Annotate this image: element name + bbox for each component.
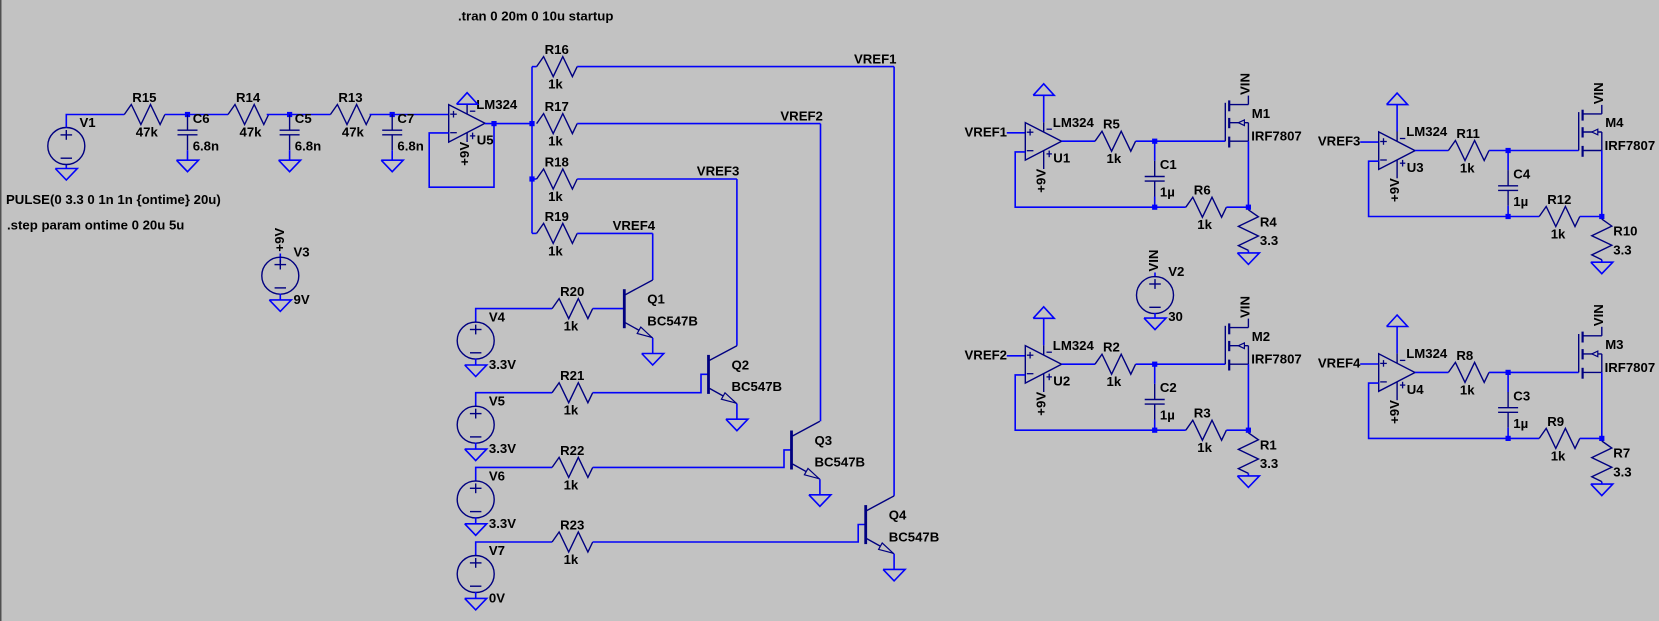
wire R11 to M4 gate (1489, 150, 1579, 152)
wire VREF2 vertical to Q3 (820, 124, 822, 422)
wire U3 V- to flag (1396, 105, 1398, 132)
svg-text:1k: 1k (1460, 382, 1475, 397)
svg-text:LM324: LM324 (1406, 124, 1448, 139)
wire M3 source down (1601, 372, 1603, 438)
svg-text:1k: 1k (1551, 227, 1566, 242)
svg-text:3.3V: 3.3V (489, 357, 516, 372)
svg-text:LM324: LM324 (476, 97, 518, 112)
resistor R7 (1592, 441, 1612, 482)
svg-text:R14: R14 (236, 90, 261, 105)
svg-text:M3: M3 (1605, 337, 1623, 352)
svg-text:1k: 1k (548, 243, 563, 258)
resistor R4 (1238, 210, 1258, 251)
svg-text:1k: 1k (1551, 448, 1566, 463)
wire R18 to VREF3 (577, 178, 737, 180)
svg-text:1k: 1k (564, 403, 579, 418)
svg-text:1k: 1k (1107, 374, 1122, 389)
wire R6 to R4 (1226, 206, 1248, 208)
wire V4 to ground (475, 358, 477, 365)
wire U1 feedback to bottom node (1015, 152, 1186, 207)
capacitor C3 (1498, 392, 1518, 428)
ground under R4 (1237, 253, 1259, 265)
svg-text:47k: 47k (342, 125, 365, 140)
svg-text:3.3: 3.3 (1260, 456, 1278, 471)
wire VREF3 vertical to Q2 (736, 179, 738, 346)
svg-text:VREF2: VREF2 (965, 347, 1008, 362)
transistor Q2 (BC547B) (709, 346, 737, 404)
svg-text:1k: 1k (548, 77, 563, 92)
svg-text:LM324: LM324 (1406, 346, 1448, 361)
wire Q3 emitter to ground (819, 479, 821, 495)
svg-text:VREF2: VREF2 (780, 108, 823, 123)
ground under R1 (1237, 476, 1259, 488)
voltage source V3 (262, 257, 299, 294)
svg-text:1k: 1k (548, 189, 563, 204)
svg-text:V6: V6 (489, 468, 505, 483)
wire C2 to bottom node (1154, 420, 1156, 431)
node N003 junction (390, 112, 395, 117)
wire VREF4 to U4 +in (1360, 363, 1379, 365)
svg-text:47k: 47k (136, 125, 159, 140)
node junction at C4 top (1506, 148, 1511, 153)
capacitor C7 (382, 115, 402, 151)
wire U4 out to R8 (1415, 371, 1448, 373)
svg-text:+9V: +9V (457, 142, 472, 166)
wire M2 source down (1247, 364, 1249, 430)
svg-text:R5: R5 (1103, 117, 1120, 132)
voltage source V4 (457, 322, 494, 359)
wire R12 to R10 (1580, 216, 1602, 218)
svg-text:1k: 1k (564, 319, 579, 334)
svg-text:Q1: Q1 (647, 292, 665, 307)
svg-text:3.3: 3.3 (1613, 242, 1631, 257)
wire Q2 emitter to ground (736, 404, 738, 420)
svg-text:3.3: 3.3 (1260, 233, 1278, 248)
wire VREF4 vertical to Q1 (652, 233, 654, 280)
svg-text:R8: R8 (1456, 348, 1473, 363)
capacitor C5 (280, 115, 300, 151)
wire bus to R18 (532, 178, 537, 180)
capacitor C6 (178, 115, 198, 151)
ground under Q3 (809, 495, 831, 507)
source node junction (1246, 428, 1251, 433)
wire R22 to Q3 base (593, 450, 792, 468)
svg-text:R15: R15 (132, 90, 156, 105)
svg-text:R18: R18 (545, 154, 569, 169)
wire U1 out to R5 (1062, 140, 1095, 142)
wire V4 to R20 (476, 309, 552, 323)
node junction at C1 top (1152, 139, 1157, 144)
svg-text:R13: R13 (338, 90, 362, 105)
wire C5 to ground (289, 150, 291, 160)
bus junction at R17 (529, 121, 534, 126)
wire to R4 (1247, 207, 1249, 210)
svg-text:IRF7807: IRF7807 (1251, 129, 1302, 144)
resistor R21 (552, 383, 593, 403)
svg-text:0V: 0V (489, 591, 505, 606)
resistor R16 (537, 57, 578, 77)
wire V3 to ground (279, 294, 281, 300)
svg-text:VIN: VIN (1146, 250, 1161, 272)
svg-text:VREF4: VREF4 (1318, 356, 1361, 371)
wire U3 feedback to bottom node (1369, 161, 1540, 216)
svg-text:C3: C3 (1513, 388, 1530, 403)
wire R1 to ground (1247, 473, 1249, 476)
resistor R3 (1186, 420, 1227, 440)
wire Q1 emitter to ground (652, 338, 654, 354)
svg-text:C1: C1 (1160, 157, 1177, 172)
wire R14 to R13 (267, 114, 331, 116)
svg-text:V5: V5 (489, 394, 505, 409)
MOSFET M2 (IRF7807) (1225, 319, 1248, 371)
svg-text:M2: M2 (1252, 329, 1270, 344)
bottom node junction at C1 (1152, 205, 1157, 210)
svg-text:1µ: 1µ (1160, 408, 1175, 423)
wire C3 to bottom node (1507, 428, 1509, 439)
svg-text:+9V: +9V (1387, 400, 1402, 424)
svg-text:R4: R4 (1260, 214, 1278, 229)
svg-text:VREF1: VREF1 (965, 124, 1008, 139)
svg-text:C2: C2 (1160, 380, 1177, 395)
MOSFET M3 (IRF7807) (1579, 327, 1602, 379)
wire U3 out to R11 (1415, 150, 1448, 152)
op-amp U4 (1379, 353, 1415, 400)
voltage source V1 (48, 128, 85, 165)
wire U1 V- to flag (1043, 95, 1045, 122)
wire C1 to bottom node (1154, 197, 1156, 208)
wire U4 V- to flag (1396, 327, 1398, 354)
svg-text:1k: 1k (1197, 217, 1212, 232)
wire down to C3 (1507, 372, 1509, 392)
svg-text:9V: 9V (294, 292, 310, 307)
svg-text:Q2: Q2 (732, 357, 750, 372)
svg-text:1k: 1k (564, 477, 579, 492)
svg-text:R2: R2 (1103, 340, 1120, 355)
wire V2 top stub (1154, 273, 1156, 278)
wire C6 to ground (187, 150, 189, 160)
resistor R17 (537, 114, 578, 134)
svg-text:R23: R23 (560, 517, 584, 532)
svg-text:BC547B: BC547B (815, 455, 866, 470)
svg-text:R3: R3 (1194, 406, 1211, 421)
capacitor C4 (1498, 170, 1518, 206)
svg-text:BC547B: BC547B (647, 313, 698, 328)
ground under C5 (279, 160, 301, 172)
ground under V6 (465, 524, 487, 536)
MOSFET M4 (IRF7807) (1579, 105, 1602, 157)
wire C4 to bottom node (1507, 206, 1509, 217)
wire V5 to R21 (476, 393, 552, 407)
wire vertical bus (531, 67, 533, 234)
svg-text:R11: R11 (1456, 126, 1479, 141)
svg-text:3.3V: 3.3V (489, 516, 516, 531)
node junction at C2 top (1152, 362, 1157, 367)
svg-text:6.8n: 6.8n (193, 138, 219, 153)
svg-text:C5: C5 (295, 111, 312, 126)
ground under V2 (1144, 318, 1166, 330)
wire R13 to U5 +in (370, 114, 449, 116)
resistor R2 (1095, 354, 1136, 374)
svg-text:1µ: 1µ (1513, 194, 1528, 209)
wire R9 to R7 (1580, 437, 1602, 439)
svg-text:R16: R16 (545, 42, 569, 57)
svg-text:R7: R7 (1613, 446, 1630, 461)
resistor R8 (1448, 362, 1489, 382)
wire C7 to ground (391, 150, 393, 160)
svg-text:V4: V4 (489, 310, 506, 325)
wire R2 to M2 gate (1136, 363, 1226, 365)
svg-text:BC547B: BC547B (889, 529, 940, 544)
svg-text:V7: V7 (489, 543, 505, 558)
ground under Q1 (642, 354, 664, 366)
wire R17 to VREF2 (577, 123, 820, 125)
ground under C7 (381, 160, 403, 172)
resistor R11 (1448, 141, 1489, 161)
resistor R1 (1238, 433, 1258, 474)
wire U5 output to resistor bus (485, 123, 532, 125)
svg-text:+9V: +9V (1034, 169, 1049, 193)
op-amp U5 (449, 104, 485, 142)
svg-text:1k: 1k (1197, 440, 1212, 455)
voltage source V6 (457, 481, 494, 518)
window left border (0, 0, 1, 621)
wire U4 feedback to bottom node (1369, 383, 1540, 438)
wire to R1 (1247, 430, 1249, 433)
svg-text:+9V: +9V (1034, 392, 1049, 416)
resistor R6 (1186, 197, 1227, 217)
voltage source V7 (457, 556, 494, 593)
svg-text:V1: V1 (80, 115, 96, 130)
ground under V4 (465, 365, 487, 377)
svg-text:+9V: +9V (1387, 178, 1402, 202)
svg-text:VIN: VIN (1238, 73, 1253, 95)
svg-text:VREF3: VREF3 (697, 164, 740, 179)
bottom node junction at C2 (1152, 428, 1157, 433)
bus junction at R18 (529, 176, 534, 181)
svg-text:6.8n: 6.8n (295, 138, 321, 153)
wire U2 feedback to bottom node (1015, 375, 1186, 430)
wire U2 out to R2 (1062, 363, 1095, 365)
resistor R15 (124, 105, 165, 125)
ground flag on U3 V- pin (1387, 93, 1408, 105)
svg-text:V3: V3 (294, 245, 310, 260)
op-amp U2 (1025, 345, 1061, 392)
resistor R10 (1592, 219, 1612, 260)
ground under V3 (269, 300, 291, 312)
wire M1 source down (1247, 141, 1249, 207)
svg-text:R10: R10 (1613, 224, 1637, 239)
svg-text:1k: 1k (1107, 151, 1122, 166)
MOSFET M1 (IRF7807) (1225, 96, 1248, 148)
ground under V1 (55, 169, 77, 181)
bottom node junction at C3 (1506, 436, 1511, 441)
wire R8 to M3 gate (1489, 371, 1579, 373)
ground flag on U1 V- pin (1033, 84, 1054, 96)
resistor R14 (228, 105, 269, 125)
svg-text:U2: U2 (1053, 374, 1070, 389)
wire VREF1 to U1 +in (1007, 132, 1026, 134)
svg-text:LM324: LM324 (1053, 338, 1095, 353)
op-amp U1 (1025, 122, 1061, 169)
svg-text:U1: U1 (1053, 151, 1070, 166)
transistor Q4 (BC547B) (866, 496, 894, 554)
wire down to C4 (1507, 151, 1509, 171)
wire R3 to R1 (1226, 429, 1248, 431)
svg-text:R9: R9 (1547, 414, 1564, 429)
op-amp U3 (1379, 132, 1415, 179)
output node junction (491, 121, 496, 126)
resistor R13 (330, 105, 371, 125)
svg-text:PULSE(0 3.3 0 1n 1n {ontime} 2: PULSE(0 3.3 0 1n 1n {ontime} 20u) (6, 192, 221, 207)
transistor Q3 (BC547B) (792, 421, 820, 479)
wire VREF3 to U3 +in (1360, 141, 1379, 143)
transistor Q1 (BC547B) (624, 280, 652, 338)
svg-text:R20: R20 (560, 284, 584, 299)
wire VREF2 to U2 +in (1007, 355, 1026, 357)
source node junction (1599, 436, 1604, 441)
bottom node junction at C4 (1506, 214, 1511, 219)
svg-text:1k: 1k (548, 134, 563, 149)
ground flag on U2 V- pin (1033, 307, 1054, 319)
resistor R22 (552, 457, 593, 477)
svg-text:R1: R1 (1260, 437, 1277, 452)
ground under Q4 (883, 569, 905, 581)
svg-text:3.3: 3.3 (1613, 464, 1631, 479)
voltage source V2 (1137, 277, 1174, 314)
ground under C6 (177, 160, 199, 172)
node junction at C3 top (1506, 370, 1511, 375)
resistor R12 (1539, 207, 1580, 227)
svg-text:R22: R22 (560, 443, 584, 458)
svg-text:Q4: Q4 (889, 508, 907, 523)
wire Q4 emitter to ground (893, 554, 895, 570)
voltage source V5 (457, 406, 494, 443)
resistor R19 (537, 223, 578, 243)
svg-text:VIN: VIN (1591, 82, 1606, 104)
ground under R10 (1591, 262, 1613, 274)
svg-text:3.3V: 3.3V (489, 441, 516, 456)
svg-text:M4: M4 (1605, 115, 1624, 130)
svg-text:R17: R17 (545, 99, 569, 114)
wire down to C1 (1154, 141, 1156, 161)
svg-text:U4: U4 (1407, 382, 1425, 397)
wire V6 to R22 (476, 467, 552, 481)
svg-text:VREF4: VREF4 (613, 218, 656, 233)
wire V1 to ground (65, 165, 67, 169)
svg-text:U3: U3 (1407, 160, 1424, 175)
svg-text:30: 30 (1168, 309, 1183, 324)
svg-text:VIN: VIN (1591, 304, 1606, 326)
wire R10 to ground (1601, 260, 1603, 263)
ground flag on U4 V- pin (1387, 315, 1408, 327)
resistor R20 (552, 299, 593, 319)
wire U2 V- to flag (1043, 318, 1045, 345)
svg-text:1k: 1k (564, 552, 579, 567)
svg-text:R6: R6 (1194, 183, 1211, 198)
wire to R7 (1601, 438, 1603, 441)
ground under V5 (465, 449, 487, 461)
source node junction (1246, 205, 1251, 210)
wire R4 to ground (1247, 250, 1249, 253)
node N002 junction (287, 112, 292, 117)
svg-text:IRF7807: IRF7807 (1251, 352, 1302, 367)
svg-text:R19: R19 (545, 209, 569, 224)
wire V7 to R23 (476, 542, 552, 556)
svg-text:+9V: +9V (272, 228, 287, 252)
svg-text:M1: M1 (1252, 106, 1270, 121)
resistor R5 (1095, 131, 1136, 151)
svg-text:U5: U5 (477, 133, 494, 148)
ground under V7 (465, 598, 487, 610)
wire bus to R16 (532, 66, 537, 68)
node N001 junction (185, 112, 190, 117)
svg-text:BC547B: BC547B (732, 379, 783, 394)
svg-text:Q3: Q3 (815, 433, 833, 448)
wire R19 to VREF4 (577, 232, 653, 234)
svg-text:1k: 1k (1460, 161, 1475, 176)
svg-text:C4: C4 (1513, 166, 1531, 181)
capacitor C1 (1145, 161, 1165, 197)
ground flag on U5 V- pin (457, 93, 478, 105)
wire R15 to R14 (165, 114, 228, 116)
wire R21 to Q2 base (593, 374, 709, 392)
svg-text:.tran 0 20m 0 10u startup: .tran 0 20m 0 10u startup (458, 8, 613, 23)
wire V6 to ground (475, 517, 477, 524)
wire R20 to Q1 base (593, 308, 625, 310)
svg-text:.step param ontime 0 20u 5u: .step param ontime 0 20u 5u (7, 217, 184, 232)
svg-text:VREF1: VREF1 (854, 51, 897, 66)
resistor R9 (1539, 428, 1580, 448)
svg-text:C7: C7 (397, 111, 414, 126)
capacitor C2 (1145, 384, 1165, 420)
wire to R10 (1601, 217, 1603, 220)
svg-text:C6: C6 (193, 111, 210, 126)
ground under R7 (1591, 484, 1613, 496)
wire R7 to ground (1601, 482, 1603, 485)
svg-text:R21: R21 (560, 368, 584, 383)
wire down to C2 (1154, 364, 1156, 384)
wire U5 feedback loop (429, 124, 494, 188)
wire R16 to VREF1 (577, 66, 894, 68)
svg-text:1µ: 1µ (1160, 185, 1175, 200)
svg-text:1µ: 1µ (1513, 416, 1528, 431)
wire bus to R19 (532, 232, 537, 234)
svg-text:LM324: LM324 (1053, 115, 1095, 130)
wire V1 to R15 (66, 115, 124, 128)
wire VREF1 vertical to Q4 (893, 67, 895, 496)
source node junction (1599, 214, 1604, 219)
resistor R18 (537, 169, 578, 189)
svg-text:IRF7807: IRF7807 (1605, 360, 1656, 375)
svg-text:V2: V2 (1168, 264, 1184, 279)
svg-text:VIN: VIN (1238, 296, 1253, 318)
wire V7 to ground (475, 592, 477, 599)
wire V2 to ground (1154, 313, 1156, 318)
svg-text:6.8n: 6.8n (397, 138, 423, 153)
svg-text:IRF7807: IRF7807 (1605, 138, 1656, 153)
svg-text:VREF3: VREF3 (1318, 134, 1361, 149)
wire R5 to M1 gate (1136, 140, 1226, 142)
svg-text:R12: R12 (1547, 192, 1571, 207)
resistor R23 (552, 532, 593, 552)
ground under Q2 (726, 419, 748, 431)
wire V5 to ground (475, 443, 477, 450)
svg-text:47k: 47k (240, 125, 263, 140)
wire M4 source down (1601, 151, 1603, 217)
wire R23 to Q4 base (593, 525, 866, 543)
wire V3 top stub (279, 254, 281, 263)
